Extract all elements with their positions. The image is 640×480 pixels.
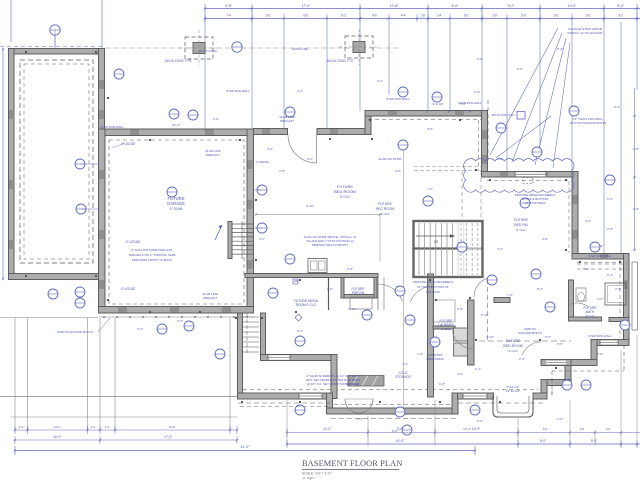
svg-text:DN: DN <box>434 240 439 244</box>
svg-text:9′-0″: 9′-0″ <box>259 237 265 241</box>
svg-text:WINDOW: WINDOW <box>345 382 358 386</box>
svg-text:7′-0″: 7′-0″ <box>507 293 513 297</box>
svg-text:9′ CLG: 9′ CLG <box>380 212 390 216</box>
svg-text:5′-0″: 5′-0″ <box>591 439 598 443</box>
svg-text:5′-6″: 5′-6″ <box>557 342 563 346</box>
svg-text:5-0: 5-0 <box>543 427 548 431</box>
svg-text:41′-0″: 41′-0″ <box>240 445 250 449</box>
svg-text:ALIGN W/ STRIP: ALIGN W/ STRIP <box>378 157 401 161</box>
svg-text:19′-10 1/2″: 19′-10 1/2″ <box>506 389 520 393</box>
svg-text:5′-8″: 5′-8″ <box>427 127 433 131</box>
svg-text:ANCHOR BOLTS: ANCHOR BOLTS <box>518 331 541 335</box>
svg-text:8′-6″: 8′-6″ <box>452 4 460 8</box>
svg-text:ADDITIONAL: ADDITIONAL <box>426 357 444 361</box>
svg-text:3′-0″: 3′-0″ <box>457 372 463 376</box>
svg-text:STEP FDN WALL: STEP FDN WALL <box>386 97 410 101</box>
svg-text:16X16 CONC FTG: 16X16 CONC FTG <box>165 59 192 63</box>
svg-text:2′-0″: 2′-0″ <box>497 247 503 251</box>
svg-text:DASH LINE: DASH LINE <box>292 47 308 51</box>
svg-text:9′ CLG: 9′ CLG <box>586 314 595 318</box>
svg-text:3′-2″: 3′-2″ <box>267 147 273 151</box>
svg-text:1-0: 1-0 <box>105 425 110 429</box>
svg-text:9′ CLG: 9′ CLG <box>441 327 451 331</box>
svg-text:2′-8″: 2′-8″ <box>607 227 613 231</box>
svg-text:4″ LEDGE: 4″ LEDGE <box>121 287 136 291</box>
svg-text:16-0: 16-0 <box>169 425 175 429</box>
svg-text:3′-4″: 3′-4″ <box>177 319 183 323</box>
svg-text:16′-0″: 16′-0″ <box>53 435 62 439</box>
svg-text:5′-4″: 5′-4″ <box>537 287 543 291</box>
svg-text:5-2: 5-2 <box>618 14 623 18</box>
svg-text:16X16 CONC FTG: 16X16 CONC FTG <box>327 59 354 63</box>
svg-text:SIMPSON SET-UP EPOXY: SIMPSON SET-UP EPOXY <box>312 243 349 247</box>
svg-text:4″ SLAB: 4″ SLAB <box>170 207 183 211</box>
svg-text:4′-4″: 4′-4″ <box>357 417 363 421</box>
svg-text:6′-0″: 6′-0″ <box>137 327 143 331</box>
svg-text:6′-8″: 6′-8″ <box>439 382 445 386</box>
svg-text:PRECAST: PRECAST <box>203 296 217 300</box>
svg-text:3′-2″: 3′-2″ <box>597 297 603 301</box>
svg-text:BASEMENT FLOOR PLAN: BASEMENT FLOOR PLAN <box>302 459 402 468</box>
svg-text:2′-6″: 2′-6″ <box>213 117 219 121</box>
svg-text:5′-2″: 5′-2″ <box>617 4 625 8</box>
svg-text:9′-2 1/2″: 9′-2 1/2″ <box>433 102 444 106</box>
svg-text:2′-8″: 2′-8″ <box>347 267 353 271</box>
svg-text:10′-0″: 10′-0″ <box>568 4 577 8</box>
svg-text:14′-2″: 14′-2″ <box>463 427 471 431</box>
svg-text:4′-2″: 4′-2″ <box>297 89 303 93</box>
svg-text:4′ LEDGE: 4′ LEDGE <box>255 160 268 164</box>
svg-text:1-0: 1-0 <box>91 425 96 429</box>
svg-text:4-4: 4-4 <box>401 14 406 18</box>
svg-text:4′-6″: 4′-6″ <box>92 52 98 56</box>
svg-text:OF FOOTINGS: OF FOOTINGS <box>525 201 546 205</box>
svg-text:2′-4″: 2′-4″ <box>615 287 621 291</box>
svg-text:6′-4″: 6′-4″ <box>377 79 383 83</box>
svg-text:4′-0″: 4′-0″ <box>497 157 503 161</box>
svg-text:STEP FDN WALL: STEP FDN WALL <box>588 254 612 258</box>
svg-text:5′-0″: 5′-0″ <box>607 197 613 201</box>
svg-text:10′-8″: 10′-8″ <box>390 4 399 8</box>
svg-text:3-8: 3-8 <box>492 14 497 18</box>
svg-text:5-0: 5-0 <box>586 14 591 18</box>
svg-text:2′-10″: 2′-10″ <box>348 307 355 311</box>
svg-text:9′-2″: 9′-2″ <box>508 4 516 8</box>
svg-text:9′-10″: 9′-10″ <box>306 204 314 208</box>
svg-text:PRECAST: PRECAST <box>280 119 294 123</box>
svg-text:SCALE: 1/4″ = 1′-0″: SCALE: 1/4″ = 1′-0″ <box>302 472 332 476</box>
svg-text:2′-8″: 2′-8″ <box>279 169 285 173</box>
svg-text:5′-2″: 5′-2″ <box>307 157 313 161</box>
svg-text:16X16 CONC: 16X16 CONC <box>199 49 218 53</box>
svg-text:STEP FDN WALL: STEP FDN WALL <box>458 101 482 105</box>
svg-text:2′-8″: 2′-8″ <box>633 207 639 211</box>
svg-text:6-8: 6-8 <box>303 14 308 18</box>
svg-text:BED RM: BED RM <box>514 223 527 227</box>
svg-text:5′-6″: 5′-6″ <box>545 335 551 339</box>
svg-text:-A- SQFT: -A- SQFT <box>302 476 315 480</box>
svg-text:2′-8″: 2′-8″ <box>633 147 639 151</box>
svg-text:5′-0″: 5′-0″ <box>477 57 483 61</box>
svg-text:FOOTING: FOOTING <box>426 290 440 294</box>
svg-text:4-6: 4-6 <box>372 14 377 18</box>
svg-text:5′-2″: 5′-2″ <box>297 329 303 333</box>
svg-text:5-0: 5-0 <box>266 14 271 18</box>
svg-text:W/ R-TAI ANCHOR BOLTS: W/ R-TAI ANCHOR BOLTS <box>570 121 606 125</box>
svg-text:3-4: 3-4 <box>437 14 442 18</box>
svg-text:2′-0″: 2′-0″ <box>597 352 603 356</box>
svg-text:2′-8″: 2′-8″ <box>457 307 463 311</box>
svg-text:7-4: 7-4 <box>226 14 231 18</box>
svg-text:17′-0″: 17′-0″ <box>164 435 173 439</box>
svg-text:17′-0″: 17′-0″ <box>302 4 311 8</box>
svg-text:FUTURE: FUTURE <box>378 202 392 206</box>
svg-text:9′ CLG: 9′ CLG <box>516 228 526 232</box>
svg-text:8′-0″: 8′-0″ <box>583 267 589 271</box>
svg-text:6″ HOLLOW CORE PRECAST: 6″ HOLLOW CORE PRECAST <box>131 248 172 252</box>
svg-text:5-0: 5-0 <box>554 14 559 18</box>
svg-text:1-0: 1-0 <box>19 425 24 429</box>
svg-text:5-0: 5-0 <box>521 14 526 18</box>
svg-text:SPANNING FRONT TO BACK: SPANNING FRONT TO BACK <box>132 258 172 262</box>
svg-text:7′-6″: 7′-6″ <box>427 187 433 191</box>
svg-text:GARAGE: GARAGE <box>167 201 185 206</box>
svg-text:1′-6″: 1′-6″ <box>417 352 423 356</box>
svg-text:2-6: 2-6 <box>606 427 611 431</box>
svg-text:HB: HB <box>294 279 298 283</box>
svg-text:1-8: 1-8 <box>420 14 425 18</box>
svg-text:IN TOP & BOTTOM OF: IN TOP & BOTTOM OF <box>417 285 448 289</box>
svg-text:REC ROOM: REC ROOM <box>376 207 395 211</box>
svg-text:BED ROOM: BED ROOM <box>334 189 356 194</box>
svg-text:4′-0″: 4′-0″ <box>402 362 408 366</box>
svg-text:3′-6″: 3′-6″ <box>395 169 401 173</box>
svg-text:14′-2″: 14′-2″ <box>323 427 332 431</box>
svg-text:14′-2″: 14′-2″ <box>472 427 481 431</box>
svg-text:7′-0″: 7′-0″ <box>474 90 480 94</box>
svg-text:PRECAST: PRECAST <box>206 153 220 157</box>
svg-text:3′-8″: 3′-8″ <box>542 237 548 241</box>
svg-text:9′-0″: 9′-0″ <box>397 427 404 431</box>
svg-text:FUTURE: FUTURE <box>514 218 528 222</box>
svg-text:6′-6″: 6′-6″ <box>327 287 333 291</box>
svg-text:4″ LEDGE: 4″ LEDGE <box>126 240 141 244</box>
svg-text:41′-0″: 41′-0″ <box>396 439 405 443</box>
svg-text:STEP FDN WALL: STEP FDN WALL <box>588 334 612 338</box>
svg-text:5′-4″: 5′-4″ <box>557 47 563 51</box>
svg-text:5′-0″: 5′-0″ <box>540 439 547 443</box>
svg-text:6′-4″: 6′-4″ <box>607 273 613 277</box>
svg-text:BED ROOM: BED ROOM <box>503 344 523 348</box>
svg-text:2′-2″: 2′-2″ <box>557 417 563 421</box>
svg-text:PDR RM: PDR RM <box>352 291 365 295</box>
svg-text:SPACED IN W/ 2″ TOPPING SLAB: SPACED IN W/ 2″ TOPPING SLAB <box>129 253 176 257</box>
svg-text:4′-6″: 4′-6″ <box>585 219 591 223</box>
svg-text:PROVIDE REINFORCEMENT: PROVIDE REINFORCEMENT <box>413 280 454 284</box>
svg-text:ROOM 9′ CLG: ROOM 9′ CLG <box>296 303 317 307</box>
svg-text:STORAGE: STORAGE <box>395 375 411 379</box>
svg-text:STEP FDN WALL: STEP FDN WALL <box>226 89 250 93</box>
svg-text:5-2: 5-2 <box>341 14 346 18</box>
svg-text:INSTALL 32 TAI ANCHOR: INSTALL 32 TAI ANCHOR <box>568 31 604 35</box>
svg-text:2′-0″: 2′-0″ <box>519 357 525 361</box>
svg-text:6′-2″: 6′-2″ <box>477 419 483 423</box>
svg-text:9′ CLG: 9′ CLG <box>508 349 518 353</box>
svg-text:10-0: 10-0 <box>54 425 60 429</box>
svg-text:4′-0″: 4′-0″ <box>614 105 620 109</box>
svg-text:5-0: 5-0 <box>464 14 469 18</box>
svg-text:2-6: 2-6 <box>580 427 585 431</box>
svg-text:21′-4″: 21′-4″ <box>172 123 180 127</box>
svg-text:1′-4″: 1′-4″ <box>475 367 481 371</box>
svg-text:STEP FDN WALL: STEP FDN WALL <box>100 125 124 129</box>
svg-text:3′-0″: 3′-0″ <box>517 67 523 71</box>
svg-text:9′ CLG: 9′ CLG <box>340 195 350 199</box>
svg-text:9′-8″: 9′-8″ <box>225 4 233 8</box>
